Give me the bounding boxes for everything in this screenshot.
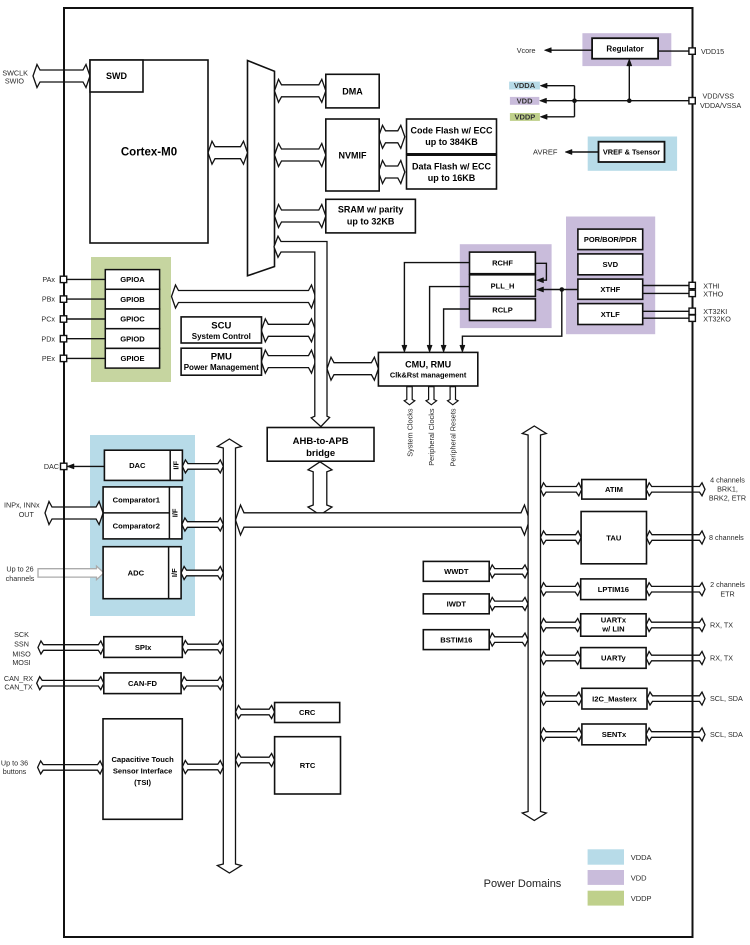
svg-text:SPIx: SPIx — [135, 643, 152, 652]
svg-text:RCHF: RCHF — [492, 259, 513, 268]
svg-text:I/F: I/F — [171, 508, 180, 517]
svg-text:PCx: PCx — [41, 315, 55, 324]
svg-text:PEx: PEx — [42, 354, 56, 363]
svg-text:IWDT: IWDT — [447, 600, 467, 609]
svg-text:System Control: System Control — [192, 332, 251, 341]
svg-text:8 channels: 8 channels — [709, 533, 744, 542]
svg-text:TAU: TAU — [606, 533, 622, 542]
svg-text:RTC: RTC — [300, 761, 316, 770]
svg-text:buttons: buttons — [3, 767, 27, 776]
svg-text:up to 32KB: up to 32KB — [347, 216, 395, 226]
svg-text:PMU: PMU — [211, 352, 232, 363]
svg-text:GPIOA: GPIOA — [120, 275, 145, 284]
svg-text:XTLF: XTLF — [601, 310, 620, 319]
svg-text:GPIOC: GPIOC — [120, 315, 145, 324]
svg-text:Power Management: Power Management — [184, 363, 259, 372]
svg-text:VDD: VDD — [631, 873, 647, 882]
svg-text:XT32KO: XT32KO — [703, 314, 731, 323]
svg-text:I/F: I/F — [170, 568, 179, 577]
svg-text:BRK2, ETR: BRK2, ETR — [709, 494, 746, 503]
svg-text:VDDA: VDDA — [514, 81, 536, 90]
svg-text:2 channels: 2 channels — [710, 580, 745, 589]
svg-text:SCU: SCU — [211, 320, 231, 331]
svg-text:XTHF: XTHF — [600, 285, 620, 294]
svg-text:Comparator2: Comparator2 — [113, 522, 160, 531]
svg-text:PLL_H: PLL_H — [491, 281, 515, 290]
svg-text:AVREF: AVREF — [533, 148, 558, 157]
svg-text:(TSI): (TSI) — [134, 778, 151, 787]
svg-text:INPx, INNx: INPx, INNx — [4, 501, 40, 510]
svg-text:CAN-FD: CAN-FD — [128, 679, 158, 688]
svg-text:bridge: bridge — [306, 448, 335, 459]
svg-text:VDDA/VSSA: VDDA/VSSA — [700, 101, 741, 110]
svg-text:XTHO: XTHO — [703, 290, 723, 299]
svg-text:VDDA: VDDA — [631, 853, 652, 862]
svg-text:Peripheral Clocks: Peripheral Clocks — [427, 408, 436, 466]
svg-text:VDD/VSS: VDD/VSS — [703, 92, 735, 101]
svg-text:VDD15: VDD15 — [701, 47, 724, 56]
svg-text:UARTy: UARTy — [601, 654, 627, 663]
svg-text:GPIOD: GPIOD — [120, 334, 145, 343]
svg-text:ETR: ETR — [720, 589, 734, 598]
svg-text:SWD: SWD — [106, 71, 127, 81]
svg-text:SCL, SDA: SCL, SDA — [710, 694, 743, 703]
svg-text:VDDP: VDDP — [631, 894, 652, 903]
svg-text:BRK1,: BRK1, — [717, 485, 738, 494]
svg-text:DAC: DAC — [129, 461, 146, 470]
svg-text:Up to 26: Up to 26 — [6, 565, 33, 574]
svg-text:Power Domains: Power Domains — [484, 878, 562, 890]
svg-text:SSN: SSN — [14, 640, 29, 649]
svg-text:ADC: ADC — [128, 568, 145, 577]
svg-text:CAN_TX: CAN_TX — [4, 683, 33, 692]
svg-text:up to 384KB: up to 384KB — [425, 137, 478, 147]
svg-text:SRAM w/ parity: SRAM w/ parity — [338, 205, 404, 215]
svg-text:VDD: VDD — [517, 97, 533, 106]
svg-text:MOSI: MOSI — [12, 658, 30, 667]
svg-text:RCLP: RCLP — [492, 305, 512, 314]
svg-text:RX, TX: RX, TX — [710, 654, 733, 663]
svg-text:SWIO: SWIO — [5, 76, 25, 85]
svg-text:VDDP: VDDP — [514, 113, 535, 122]
svg-text:4 channels: 4 channels — [710, 475, 745, 484]
svg-text:Comparator1: Comparator1 — [113, 496, 161, 505]
svg-text:BSTIM16: BSTIM16 — [440, 635, 472, 644]
svg-text:GPIOB: GPIOB — [120, 295, 145, 304]
svg-text:POR/BOR/PDR: POR/BOR/PDR — [584, 235, 638, 244]
svg-text:I/F: I/F — [171, 461, 180, 470]
svg-text:SVD: SVD — [602, 260, 618, 269]
svg-text:Clk&Rst management: Clk&Rst management — [390, 371, 467, 380]
svg-text:System Clocks: System Clocks — [405, 408, 414, 457]
svg-text:Regulator: Regulator — [606, 44, 643, 53]
svg-text:SCL, SDA: SCL, SDA — [710, 730, 743, 739]
svg-text:PAx: PAx — [42, 275, 55, 284]
svg-text:Code Flash w/ ECC: Code Flash w/ ECC — [410, 125, 493, 135]
svg-text:Capacitive Touch: Capacitive Touch — [111, 755, 174, 764]
svg-text:Cortex-M0: Cortex-M0 — [121, 147, 177, 159]
svg-text:w/ LIN: w/ LIN — [601, 625, 624, 634]
svg-text:PDx: PDx — [41, 334, 55, 343]
svg-text:LPTIM16: LPTIM16 — [598, 585, 629, 594]
svg-text:Data Flash w/ ECC: Data Flash w/ ECC — [412, 161, 492, 171]
svg-text:ATIM: ATIM — [605, 485, 623, 494]
svg-text:SENTx: SENTx — [602, 730, 627, 739]
svg-text:I2C_Masterx: I2C_Masterx — [592, 694, 638, 703]
svg-text:Sensor Interface: Sensor Interface — [113, 767, 173, 776]
svg-text:AHB-to-APB: AHB-to-APB — [293, 436, 349, 447]
svg-text:CRC: CRC — [299, 708, 316, 717]
svg-text:GPIOE: GPIOE — [120, 354, 144, 363]
svg-text:UARTx: UARTx — [601, 615, 627, 624]
svg-text:VREF & Tsensor: VREF & Tsensor — [603, 148, 660, 157]
svg-text:Vcore: Vcore — [517, 46, 536, 55]
svg-text:DAC: DAC — [44, 462, 59, 471]
svg-text:SCK: SCK — [14, 630, 29, 639]
svg-text:Peripheral Resets: Peripheral Resets — [449, 408, 458, 466]
svg-text:CMU, RMU: CMU, RMU — [405, 359, 451, 369]
svg-text:NVMIF: NVMIF — [339, 150, 368, 160]
svg-text:up to 16KB: up to 16KB — [428, 173, 476, 183]
svg-text:RX, TX: RX, TX — [710, 621, 733, 630]
svg-text:OUT: OUT — [19, 510, 35, 519]
svg-text:PBx: PBx — [42, 295, 56, 304]
svg-text:channels: channels — [6, 574, 35, 583]
svg-text:DMA: DMA — [342, 86, 363, 96]
svg-text:WWDT: WWDT — [444, 567, 469, 576]
